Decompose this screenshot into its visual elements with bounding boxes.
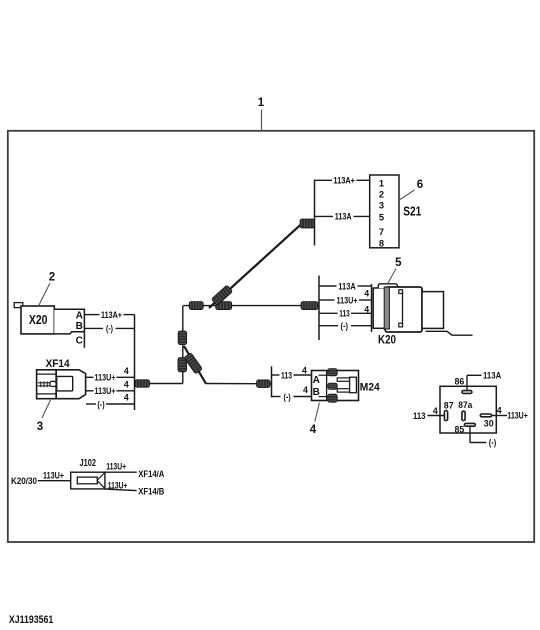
- svg-text:113: 113: [281, 370, 292, 380]
- svg-text:4: 4: [124, 393, 129, 403]
- svg-text:4: 4: [302, 365, 307, 375]
- svg-text:3: 3: [379, 201, 384, 211]
- svg-text:1: 1: [258, 97, 265, 109]
- svg-text:113A: 113A: [338, 281, 356, 291]
- svg-text:113U+: 113U+: [95, 386, 116, 396]
- svg-text:C: C: [76, 335, 83, 346]
- svg-text:113A+: 113A+: [333, 176, 355, 186]
- svg-text:113U+: 113U+: [106, 462, 126, 472]
- svg-text:4: 4: [124, 379, 129, 389]
- svg-text:113U+: 113U+: [95, 373, 116, 383]
- svg-text:6: 6: [417, 179, 423, 191]
- svg-text:3: 3: [37, 421, 43, 433]
- svg-text:(-): (-): [106, 324, 113, 334]
- svg-text:113U+: 113U+: [337, 295, 358, 305]
- svg-text:113U+: 113U+: [108, 481, 128, 491]
- svg-text:113A: 113A: [335, 212, 353, 222]
- svg-text:A: A: [76, 310, 83, 321]
- svg-text:113A: 113A: [483, 371, 502, 381]
- svg-text:5: 5: [395, 257, 402, 269]
- svg-text:4: 4: [497, 406, 502, 416]
- svg-text:4: 4: [310, 424, 317, 436]
- svg-text:2: 2: [379, 189, 384, 199]
- svg-text:XF14/A: XF14/A: [138, 469, 165, 479]
- svg-text:2: 2: [49, 272, 55, 284]
- svg-text:K20/30: K20/30: [11, 476, 37, 486]
- svg-text:S21: S21: [403, 204, 421, 218]
- svg-text:B: B: [76, 321, 83, 332]
- svg-text:XF14: XF14: [46, 358, 70, 370]
- svg-text:(-): (-): [341, 321, 349, 331]
- svg-text:X20: X20: [29, 312, 48, 327]
- svg-text:XF14/B: XF14/B: [138, 486, 164, 496]
- svg-text:113A+: 113A+: [101, 310, 122, 320]
- svg-text:87: 87: [444, 401, 454, 411]
- svg-text:(-): (-): [489, 437, 497, 447]
- svg-text:113U+: 113U+: [507, 410, 528, 420]
- svg-text:M24: M24: [360, 382, 381, 394]
- svg-text:(-): (-): [97, 399, 104, 409]
- svg-text:1: 1: [379, 178, 384, 188]
- svg-text:30: 30: [484, 418, 494, 428]
- svg-text:A: A: [313, 375, 320, 386]
- svg-text:113U+: 113U+: [43, 471, 64, 481]
- svg-text:5: 5: [379, 212, 384, 222]
- svg-text:(-): (-): [284, 392, 291, 402]
- svg-text:4: 4: [364, 305, 369, 315]
- svg-text:4: 4: [303, 385, 308, 395]
- svg-text:4: 4: [124, 366, 129, 376]
- svg-text:87a: 87a: [458, 400, 472, 410]
- svg-text:113: 113: [339, 309, 350, 319]
- svg-text:XJ1193561: XJ1193561: [9, 614, 53, 626]
- svg-text:8: 8: [379, 238, 384, 248]
- svg-text:K20: K20: [378, 334, 396, 346]
- svg-text:7: 7: [379, 227, 384, 237]
- svg-text:86: 86: [455, 377, 465, 387]
- svg-text:4: 4: [433, 406, 438, 416]
- svg-text:4: 4: [364, 289, 369, 299]
- svg-text:85: 85: [455, 425, 465, 435]
- svg-text:113: 113: [413, 411, 426, 421]
- svg-text:J102: J102: [80, 458, 97, 469]
